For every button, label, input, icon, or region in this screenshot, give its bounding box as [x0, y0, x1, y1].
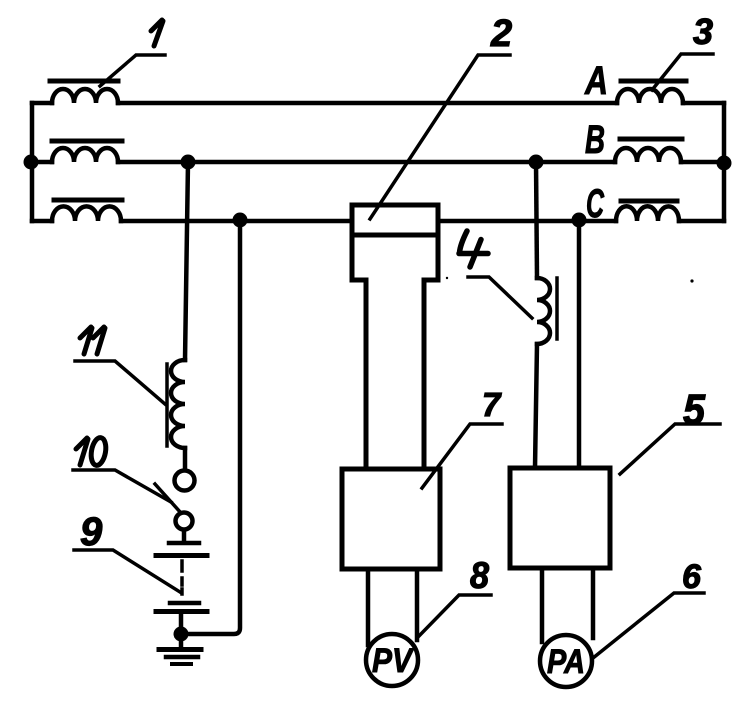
dashed wire of 9	[180, 561, 184, 594]
core bar of coil 11	[165, 364, 169, 446]
wire C branch to ground node	[181, 222, 240, 634]
svg-text:5: 5	[683, 386, 706, 434]
svg-text:A: A	[584, 59, 608, 103]
ink speck	[446, 277, 448, 279]
label 4	[459, 231, 488, 267]
box 2 lower body right	[424, 235, 438, 469]
box 7 (voltmeter unit)	[342, 469, 440, 569]
wire capacitor to ground node	[179, 612, 184, 634]
wire box 7 to PV left	[366, 569, 371, 645]
inductor coil 3 phase C right	[616, 206, 679, 221]
inductor coil 1 phase C left	[52, 206, 121, 221]
wire bus C left	[32, 219, 52, 224]
node C line left junction	[233, 213, 248, 228]
node B line left junction	[181, 155, 196, 170]
leader for label 8	[419, 595, 491, 636]
inductor coil 1 phase A left	[52, 89, 118, 103]
node on right bus at B	[717, 156, 732, 171]
ground symbol	[159, 647, 201, 652]
wire coil 4 to box 5	[535, 344, 537, 468]
wire left vertical bus	[30, 103, 35, 221]
node on left bus at B	[24, 155, 39, 170]
capacitor 9 plate 4	[156, 609, 207, 614]
svg-text:PV: PV	[372, 642, 415, 680]
arrester ball upper (10)	[175, 471, 195, 491]
leader for label 3	[652, 54, 713, 90]
wire B junction down to coil 11	[185, 162, 188, 360]
leader hook for label 10	[155, 484, 181, 513]
wire box 5 to PA right	[591, 568, 596, 638]
leader for label 4	[468, 277, 532, 318]
transformer box 2	[352, 205, 438, 235]
wire bus A	[32, 101, 52, 106]
box 5 (ammeter unit)	[510, 468, 610, 568]
core bar of coil 3 C	[621, 199, 677, 204]
leader for label 2	[370, 55, 510, 219]
capacitor 9 plate 2	[156, 553, 207, 558]
core bar of coil 1 C	[54, 198, 122, 203]
wire bus C right stub	[679, 219, 724, 224]
label 11	[80, 327, 105, 354]
wire node to ground	[179, 634, 184, 647]
svg-text:C: C	[586, 182, 605, 226]
wire B junction down to coil 4	[536, 162, 537, 278]
meter PV circle 8	[366, 634, 418, 686]
wire bus B middle	[118, 160, 615, 165]
svg-text:2: 2	[490, 13, 512, 55]
node B line right junction	[529, 155, 544, 170]
wire bus C to box 2	[121, 219, 352, 224]
svg-text:6: 6	[682, 558, 702, 596]
wire C junction down to box 5	[577, 220, 582, 468]
arrester ball lower (10)	[176, 513, 193, 530]
leader for label 1	[100, 55, 165, 86]
label 10	[76, 438, 88, 465]
wire box 5 to PA left	[540, 568, 545, 642]
core bar of coil 3 B	[620, 137, 682, 142]
svg-text:9: 9	[80, 510, 103, 554]
leader for label 7	[422, 424, 502, 488]
capacitor 9 plate 1	[169, 541, 199, 546]
node C line right junction	[572, 213, 587, 228]
core bar of coil 4	[555, 278, 559, 339]
box 2 lower body left	[352, 235, 366, 469]
inductor coil 11	[171, 360, 185, 448]
svg-text:PA: PA	[547, 643, 585, 681]
core bar of coil 1 B	[52, 139, 122, 144]
svg-text:7: 7	[482, 386, 502, 423]
leader for label 9	[74, 550, 180, 592]
svg-text:8: 8	[470, 555, 489, 596]
leader for label 11	[75, 361, 165, 404]
wire right vertical bus	[722, 103, 727, 221]
core bar of coil 1 A	[50, 79, 118, 84]
leader for label 6	[593, 593, 704, 658]
core bar of coil 3 A	[621, 79, 686, 84]
wire bus C from box 2 to coil	[438, 219, 616, 224]
ink speck	[690, 279, 693, 282]
inductor coil 3 phase B right	[615, 148, 681, 162]
wire bus A right stub	[683, 101, 724, 106]
svg-text:3: 3	[693, 11, 713, 52]
wire ball to capacitor 9	[182, 530, 187, 542]
wire bus B	[32, 160, 52, 165]
node ground junction	[174, 627, 189, 642]
svg-text:B: B	[585, 118, 605, 162]
label 1	[151, 20, 163, 46]
wire bus B right stub	[681, 160, 724, 165]
inductor coil 3 phase A right	[617, 89, 683, 103]
wire bus A middle	[118, 101, 617, 106]
wire coil 11 to gap	[183, 448, 188, 470]
leader for label 5	[620, 424, 720, 474]
capacitor 9 plate 3	[170, 601, 199, 606]
inductor coil 1 phase B left	[52, 148, 118, 162]
inductor coil 4	[537, 278, 550, 344]
meter PA circle 6	[540, 635, 592, 687]
wire box 7 to PV right	[415, 569, 420, 640]
leader for label 10	[73, 470, 171, 502]
